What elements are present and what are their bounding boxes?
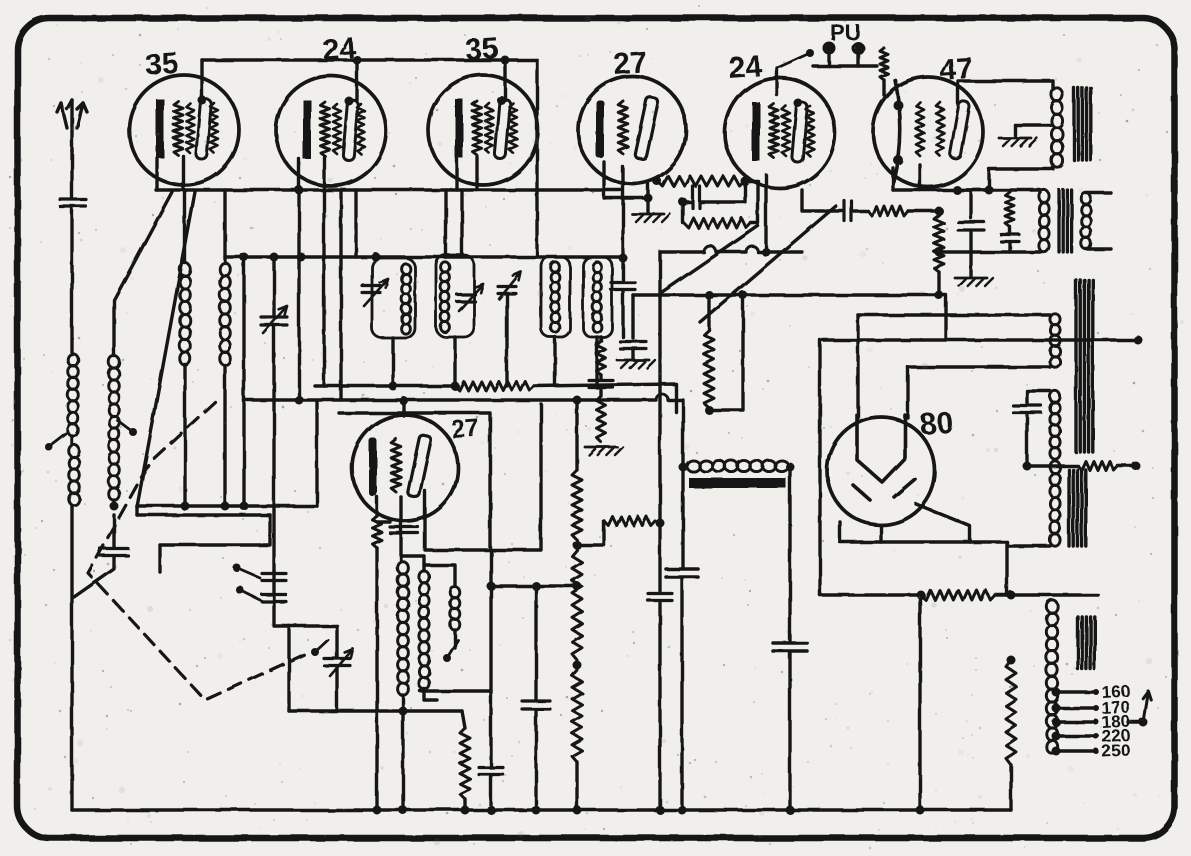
wire box1 bottom drop (391, 338, 394, 386)
wire V7 grid top (402, 400, 405, 416)
capacitor IF grid coupling (611, 283, 635, 290)
wire W3 bottom link (1007, 544, 1050, 547)
capacitor bias C14 (479, 768, 503, 775)
resistor bleeder R13 (1078, 462, 1118, 471)
wire PU load drop (882, 80, 885, 95)
wire osc lower rail right (420, 689, 491, 692)
wire x244 drop (242, 257, 245, 506)
node voltage selector base (1139, 718, 1148, 727)
wire V8 plate 2 lead (906, 367, 909, 418)
wire V1 grid lead (181, 156, 184, 190)
node bottom bus x465 (461, 806, 470, 815)
wire L5 bottom down (223, 365, 226, 506)
resistor filter R11 (921, 590, 995, 600)
node bottom bus x790 (786, 806, 795, 815)
wire L12 bottom (424, 689, 437, 700)
node choke right (786, 463, 795, 472)
coil speaker transformer primary (1039, 190, 1049, 252)
wire voice coil top (1086, 191, 1111, 194)
coil oscillator plate L12 (419, 571, 429, 689)
wire V2 screen drop (339, 190, 342, 400)
coil oscillator tickler L13 (450, 587, 460, 630)
wire L13 bottom (453, 630, 456, 648)
resistor divider R12 (1006, 660, 1016, 765)
core power transformer upper (1076, 280, 1093, 452)
wire tap 220 (1056, 734, 1096, 737)
core filter choke bar (689, 478, 786, 488)
tube V1 35 (RF amplifier) (129, 75, 239, 185)
wire R16 bottom (463, 799, 466, 810)
wire W2 top lead (1027, 391, 1050, 403)
tube V6 47 (output) (873, 77, 983, 187)
wire L4 bottom down (183, 365, 186, 506)
node R11 left (917, 591, 926, 600)
wire padder drop (505, 294, 508, 386)
resistor PU load vertical (880, 48, 888, 80)
terminal HT right (1134, 336, 1143, 345)
wire V7 plate lead down (425, 491, 541, 550)
terminal tap 180 (1093, 719, 1099, 725)
wire filter output y595 (820, 593, 921, 596)
wire mid-tap ground stem (1013, 125, 1016, 136)
wire IF load mid2 (599, 388, 602, 396)
capacitor padder C3 (498, 287, 516, 294)
node H9b x299 (295, 396, 304, 405)
wire L5 top to grid bus (223, 190, 226, 263)
arrow variable C2 (459, 284, 483, 311)
wire osc padder column (335, 626, 338, 657)
wire grid node drop (681, 202, 684, 223)
node L3 / AVC bus (110, 502, 119, 511)
wire grid cap lower lead (621, 290, 624, 337)
wire cathode cap link (377, 520, 390, 523)
node bottom bus x577 (573, 806, 582, 815)
terminal tap 170 (1093, 705, 1099, 711)
wire V6 screen lead (918, 165, 921, 190)
arrow variable padder C3 (499, 272, 521, 299)
node filament bus left (985, 186, 994, 195)
wire V2 grid lead (322, 157, 325, 190)
node audio grid (679, 198, 688, 207)
wire box3 bottom drop (553, 337, 556, 386)
shield box IF winding 2 (583, 257, 612, 337)
wire choke right drop (788, 467, 791, 641)
wire voice coil bottom (1086, 247, 1111, 250)
switch trimmer 2 (236, 586, 260, 600)
arrow voltage selector (1143, 691, 1151, 722)
core power transformer lower (1069, 470, 1086, 546)
wire V6 plate to output transformer (958, 81, 1053, 105)
node bottom bus x403 (399, 806, 408, 815)
wire x536 upper (534, 586, 537, 699)
node y586 x536 (532, 582, 541, 591)
wire V3 cathode drop (444, 190, 447, 257)
wire C11 bottom (680, 579, 683, 810)
terminal PU jack 2 (852, 42, 865, 55)
wire winding W1 bottom (908, 365, 1050, 368)
node divider R12 top (1007, 656, 1016, 665)
coil output transformer primary (1051, 88, 1062, 167)
coil IF primary (551, 262, 560, 332)
wire tone R to cap (1008, 227, 1011, 233)
wire top plate supply bus (202, 58, 537, 61)
wire hum R21 left (602, 521, 605, 545)
wire coupling cap to grid node (683, 200, 691, 203)
wire diagonal V1 cathode to AVC bus (137, 192, 195, 507)
wire V1 cathode lead (155, 158, 158, 190)
wire PU jack 2 stem (856, 54, 859, 66)
terminal PU jack 1 (823, 42, 836, 55)
coil transformer winding W2 (1050, 391, 1060, 459)
capacitor audio coupling C5 (845, 201, 852, 221)
antenna (57, 100, 87, 152)
wire diagonal to V5 grid (662, 226, 758, 292)
wire V3 grid drop (460, 190, 463, 255)
resistor hum balance R21 (604, 517, 655, 526)
coil filter choke (687, 460, 789, 471)
wire switch to V5 grid cap (775, 68, 778, 95)
capacitor screen bypass (958, 222, 984, 230)
capacitor tone C (1001, 235, 1019, 242)
core divider choke (1078, 617, 1095, 669)
tube V2 24 (mixer) (276, 76, 386, 186)
terminal tap 250 (1093, 748, 1099, 754)
wire cap C5 to R4 (854, 209, 868, 212)
node V4 grid / rail (619, 254, 628, 263)
node speaker top left (953, 186, 962, 195)
wire bus H9a left part (315, 384, 455, 387)
wire tone cap drop (1008, 242, 1011, 252)
resistor oscillator cathode R16 (460, 728, 470, 799)
capacitor trimmer RF (261, 317, 287, 325)
wire IF load mid (599, 375, 602, 380)
wire detector output bus (633, 295, 946, 340)
svg-text:24: 24 (727, 50, 763, 85)
wire R2 right drop (701, 181, 745, 202)
capacitor variable C2 (457, 295, 475, 302)
node H9a box2 (451, 382, 460, 391)
node bottom bus x920 (916, 806, 925, 815)
svg-text:250: 250 (1101, 741, 1130, 761)
tube V7 27 (oscillator) (352, 415, 458, 521)
node tap 220 (1052, 732, 1061, 741)
wire V4 cathode ground stem (646, 184, 649, 212)
node AVC bus x244 (240, 502, 249, 511)
wire R16 top (462, 711, 465, 728)
wire C14 bottom (489, 777, 492, 810)
wire V8 cathode diagonal (916, 504, 970, 542)
wire trimmer chain link (274, 571, 289, 711)
node tap 170 (1052, 704, 1061, 713)
wire V1 plate to top bus (200, 60, 203, 100)
wire x491 vertical (489, 550, 492, 765)
wire AVC bus riser x317 (315, 402, 318, 506)
wire AVC bus lower (137, 513, 270, 516)
resistor R1 in bus H9a (455, 382, 534, 391)
wire L12 top lead (403, 556, 424, 571)
node AVC bus L5 (221, 502, 230, 511)
tube V5 24 (1st audio) (725, 78, 835, 188)
wire R4 to V6 grid drop (908, 209, 939, 212)
capacitor antenna series (60, 200, 86, 207)
wire antenna return to bottom bus (70, 505, 73, 810)
capacitor IF load (589, 381, 613, 388)
wire R3 right tie (745, 181, 758, 223)
capacitor oscillator padder (324, 659, 350, 666)
wire V7 cathode down (375, 548, 378, 810)
switch trimmer 1 (233, 564, 260, 578)
wire L13 top lead (424, 565, 455, 587)
node V7 grid / H9b (400, 397, 409, 406)
coil voltage divider winding (1046, 600, 1057, 753)
resistor IF load lower (597, 396, 606, 442)
wire tap 160 (1056, 690, 1096, 693)
wire grid-return bus under tubes (156, 188, 620, 191)
node top bus / V2 plate junction (353, 56, 362, 65)
wire L4 top to grid bus (183, 190, 186, 263)
wire V3 cathode lead (455, 159, 458, 190)
resistor divider Rc (572, 670, 582, 762)
wire V2 plate to top bus (355, 60, 358, 100)
capacitor filter electrolytic C10 (773, 643, 807, 651)
wire hop over x660 on bus H9b (656, 394, 668, 400)
ground detector bypass (617, 360, 655, 368)
tube V4 27 (detector) (578, 76, 686, 184)
wire antenna down-lead to coil (70, 209, 73, 354)
wire V5 cathode drop (764, 175, 767, 252)
wire V6 filament lead 1 (891, 168, 894, 190)
node tap 250 (1052, 747, 1061, 756)
wire R9 bottom to bus (937, 272, 940, 295)
node R2 right (741, 177, 750, 186)
node bottom bus x682 (678, 806, 687, 815)
wire IF load top (599, 337, 602, 341)
wire x660 long vertical upper (658, 252, 661, 591)
arrow variable C1 (364, 279, 388, 306)
resistor divider Ra (572, 470, 582, 540)
wire hop on y252 line 2 (746, 246, 758, 252)
wire bias cap stub upper (112, 515, 115, 548)
wire V2 plate lower stub (354, 190, 357, 257)
node speaker bottom left (935, 248, 944, 257)
resistor plate feed R18 (704, 330, 714, 408)
node R9 / detector bus (935, 291, 944, 300)
node y586 x491 (487, 582, 496, 591)
wire detector bypass stub (631, 295, 634, 338)
node R18 top bus (705, 291, 714, 300)
switch oscillator band (443, 640, 458, 662)
wire x920 drop to bus (918, 595, 921, 810)
node tap 180 (1052, 718, 1061, 727)
resistor audio coupling R4 (868, 206, 908, 216)
node divider x577 top (573, 396, 582, 405)
wire L3 bottom to AVC bus (112, 500, 115, 506)
terminal tap 220 (1093, 733, 1099, 739)
coil transformer winding W3 (1050, 461, 1060, 546)
node bottom bus x377 (373, 806, 382, 815)
ground output mid-tap (999, 138, 1037, 146)
wire V3 plate to top bus (503, 60, 506, 100)
wire R11 to divider (995, 593, 1050, 596)
wire screen bypass stub (969, 190, 972, 218)
node W2-W3 junction (1023, 462, 1032, 471)
capacitor filter C11 (666, 569, 698, 577)
wire tap coil top lead (1052, 593, 1098, 596)
wire trimmer column lower (272, 325, 275, 571)
coil oscillator grid L11 (398, 562, 409, 696)
wire C10 bottom (788, 653, 791, 810)
wire divider bottom (575, 762, 578, 810)
terminal R13 right (1132, 462, 1141, 471)
wire PU jack 1 stem (827, 54, 830, 66)
resistor V6 grid leak R9 (934, 215, 944, 272)
wire screen bypass lower (969, 232, 972, 276)
node osc rail L11 (399, 707, 408, 716)
wire PU link (813, 64, 877, 67)
capacitor oscillator trimmer 1 (262, 574, 286, 581)
wire antenna down-lead upper (70, 150, 73, 197)
wire x541 riser (539, 404, 542, 549)
wire padder bottom (335, 667, 338, 711)
wire L11 bottom (401, 695, 404, 810)
wire padder top link (289, 624, 337, 627)
arrow trimmer RF adjustable (263, 306, 287, 333)
coil L5 RF secondary (220, 263, 231, 365)
arrow oscillator padder (330, 649, 353, 676)
shield box tuned circuit 2 (436, 255, 474, 337)
node tap 160 (1052, 688, 1061, 697)
wire x660 long vertical lower (658, 603, 661, 810)
ground detector cathode (632, 214, 670, 222)
wire tuned-circuit top rail (225, 255, 620, 258)
switch oscillator padder (311, 640, 328, 656)
coil L1 antenna primary (68, 354, 79, 436)
capacitor V7 cathode bypass (390, 527, 418, 533)
wire bus H9b tail to choke (668, 400, 683, 466)
wire divider top (575, 400, 578, 470)
tube V3 35 (IF amplifier) (428, 75, 538, 185)
wire divider R12 bottom (1009, 765, 1012, 810)
resistor IF load upper (597, 341, 606, 375)
tube V8 80 (rectifier) (827, 415, 935, 525)
coil tuned circuit 2 (441, 262, 450, 332)
ground IF load (585, 447, 623, 455)
resistor divider Rb (572, 550, 582, 660)
node divider top (1007, 591, 1016, 600)
wire voltage selector lead (1128, 720, 1143, 723)
svg-text:27: 27 (450, 414, 480, 444)
node top rail at x301 (297, 253, 306, 262)
node R2 left (653, 177, 662, 186)
ground screen bypass (955, 278, 993, 286)
switch band-change antenna (45, 434, 66, 451)
node divider tap 2 (573, 661, 582, 670)
wire bias cap to antenna lead (74, 556, 114, 597)
coil L2 antenna coupling (69, 445, 80, 505)
capacitor bypass C12 (648, 594, 672, 601)
wire R18 top (707, 295, 710, 330)
shield box IF winding 1 (541, 257, 570, 337)
capacitor variable C1 (362, 286, 380, 293)
svg-text:PU: PU (830, 20, 861, 45)
wire B+ line y315 (858, 313, 1050, 316)
wire top bus drop right of V3 (535, 60, 538, 257)
wire V7 shelf wire (339, 413, 490, 549)
wire R18 bottom link (709, 295, 743, 410)
resistor audio grid leak R3 (684, 218, 751, 228)
wire AVC bus upper (137, 504, 317, 507)
node hum junction x660 (656, 519, 665, 528)
wire hop on y252 line 1 (704, 246, 716, 252)
node top bus / V3 plate junction (501, 56, 510, 65)
resistor detector plate R2 (657, 176, 745, 186)
node bottom bus x491 (487, 806, 496, 815)
wire box2 bottom drop (453, 337, 456, 386)
node H9a box1 (389, 382, 398, 391)
wire AVC bus left end tie (135, 506, 138, 515)
node R18 bottom (705, 406, 714, 415)
wire osc bottom rail (289, 709, 462, 712)
wire x536 lower (534, 711, 537, 810)
wire V2 cathode drop (297, 190, 300, 400)
capacitor buffer C8 (1013, 406, 1041, 413)
node bottom bus x536 (532, 806, 541, 815)
wire V6 filament bus (893, 188, 989, 191)
wire y252 segment 2 (716, 250, 746, 253)
wire between antenna coils (70, 436, 73, 445)
wire bus H9b (244, 398, 656, 401)
coil tuned circuit 1 (402, 264, 411, 334)
resistor tone R10 (1006, 192, 1015, 227)
wire R13 tail (1118, 464, 1133, 467)
switch phono/radio (777, 49, 814, 68)
wire V5 plate coupling (802, 190, 842, 211)
wire speaker primary top (957, 188, 1040, 191)
node top rail at box1 (372, 253, 381, 262)
node bottom bus x660 (656, 806, 665, 815)
dashed gang tuning link (88, 402, 312, 700)
wire diagonal to V5 cathode (700, 206, 836, 322)
wire tap 170 (1056, 706, 1096, 709)
wire bottom supply bus (72, 808, 1011, 811)
node V5 cathode / y252 (762, 248, 771, 257)
wire V3 grid lead (475, 157, 478, 190)
node grid bus x299 (295, 186, 304, 195)
wire buffer cap bottom (1025, 415, 1028, 466)
terminal tap 160 (1093, 689, 1099, 695)
wire W2/W3 to resistor R13 (1027, 464, 1078, 467)
coil speaker transformer secondary (1081, 193, 1091, 249)
wire output transformer bottom (989, 165, 1053, 190)
wire HT centre line y340 (823, 338, 1135, 341)
node choke left (679, 463, 688, 472)
core speaker transformer (1059, 190, 1072, 252)
wire bus H9a right part (534, 384, 676, 412)
wire trimmer column upper (272, 258, 275, 317)
capacitor oscillator trimmer 2 (262, 595, 286, 602)
wire y252 segment 1 (660, 250, 704, 253)
wire diagonal V1 grid to coil L3 (114, 192, 172, 356)
coil transformer winding W1 (1050, 314, 1060, 367)
wire x681 drop (681, 467, 684, 567)
wire V8 plate 1 lead (856, 315, 859, 418)
node V6 grid resistor top (935, 207, 944, 216)
switch tap on coil L3 (117, 420, 137, 436)
wire V4 grid drop (621, 167, 624, 281)
node V4 cathode ground (644, 194, 653, 203)
wire V7 grid to osc coil (399, 497, 402, 560)
wire y252 segment 3 (758, 250, 802, 253)
